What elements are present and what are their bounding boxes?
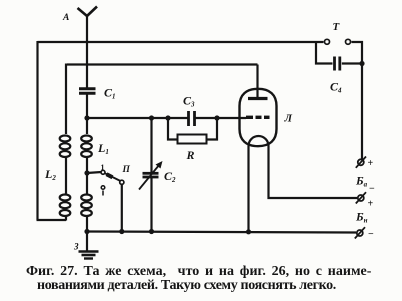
svg-text:Л: Л xyxy=(284,113,293,125)
svg-text:Бн: Бн xyxy=(355,210,368,225)
junction node C4 right xyxy=(359,61,364,66)
wire top rail xyxy=(38,41,324,43)
wire phones to battery vertical xyxy=(352,42,363,159)
svg-text:C3: C3 xyxy=(183,94,195,109)
wire switch to rail xyxy=(121,185,123,233)
junction node L1 tap xyxy=(84,170,89,175)
svg-text:Ба: Ба xyxy=(355,174,368,189)
coil L2 xyxy=(60,64,71,221)
junction node grid-C2 xyxy=(149,115,154,120)
svg-text:R: R xyxy=(186,148,195,162)
wire bottom rail xyxy=(87,232,356,233)
junction node grid-C1 xyxy=(84,115,89,120)
svg-text:L2: L2 xyxy=(44,167,56,182)
svg-text:T: T xyxy=(333,21,341,33)
capacitor C1 xyxy=(79,89,96,118)
caption line 2 xyxy=(37,278,336,294)
wire left vertical xyxy=(36,41,38,220)
terminal Ba plus xyxy=(356,157,366,168)
svg-text:−: − xyxy=(369,184,375,195)
terminal mid xyxy=(356,192,366,203)
caption line 1 xyxy=(26,264,371,280)
capacitor C4 xyxy=(316,41,362,71)
svg-text:П: П xyxy=(122,165,131,175)
tube anode xyxy=(248,97,268,100)
wire antenna lead xyxy=(86,15,88,88)
coil L1 xyxy=(81,118,92,232)
capacitor C2 variable xyxy=(139,161,163,190)
wire grid line xyxy=(87,117,246,119)
svg-text:З: З xyxy=(73,242,79,252)
capacitor C3 xyxy=(189,111,195,126)
junction node C3 right xyxy=(214,115,219,120)
junction node C3 left xyxy=(165,115,170,120)
wire C2 lower branch xyxy=(150,178,152,232)
svg-text:C4: C4 xyxy=(330,80,342,95)
svg-text:L1: L1 xyxy=(97,141,109,156)
svg-text:C2: C2 xyxy=(164,169,176,184)
wire filament right leg xyxy=(269,146,358,198)
wire C2 upper branch xyxy=(150,118,152,172)
junction node filament-rail xyxy=(246,229,251,234)
wire L2 bottom link xyxy=(37,219,67,221)
wire plate rail xyxy=(67,63,258,65)
ground xyxy=(79,232,99,262)
tube envelope xyxy=(240,89,277,146)
wire anode lead xyxy=(256,65,258,99)
svg-text:1: 1 xyxy=(101,163,105,172)
terminal Bn minus xyxy=(355,227,365,238)
tube grid xyxy=(246,116,270,119)
switch П xyxy=(101,170,124,195)
svg-text:+: + xyxy=(368,158,374,169)
junction node coil-ground xyxy=(84,229,89,234)
svg-text:+: + xyxy=(368,199,374,210)
junction node switch-rail xyxy=(119,229,124,234)
phones T terminals xyxy=(325,39,351,44)
tube filament xyxy=(249,136,269,146)
antenna A xyxy=(78,7,98,17)
svg-text:C1: C1 xyxy=(104,86,116,101)
resistor R xyxy=(168,118,217,144)
junction node C2-rail xyxy=(149,229,154,234)
svg-text:−: − xyxy=(368,229,374,240)
svg-text:A: A xyxy=(62,13,69,23)
wire tap to switch xyxy=(87,172,102,173)
wire filament left leg xyxy=(247,146,249,232)
